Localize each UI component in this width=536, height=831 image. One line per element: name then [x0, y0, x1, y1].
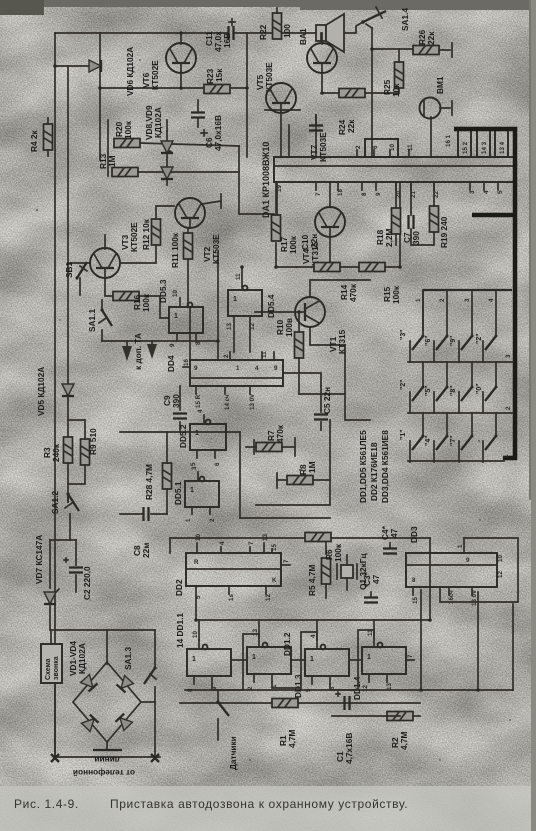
svg-text:Приставка автодозвона к охранн: Приставка автодозвона к охранному устрой… [110, 797, 408, 811]
svg-text:DA1 КР1008ВЖ10: DA1 КР1008ВЖ10 [261, 142, 271, 218]
wire bridge right link [141, 701, 155, 703]
svg-text:4: 4 [310, 634, 317, 638]
keypad column wire 4 [495, 290, 497, 336]
svg-text:DD1.4: DD1.4 [352, 676, 362, 700]
svg-text:4: 4 [219, 541, 226, 545]
transistor VT6 [166, 31, 196, 90]
svg-text:R22: R22 [258, 24, 268, 40]
rectifier bridge frame [73, 662, 141, 742]
wire DD3 drop left [420, 590, 422, 690]
svg-text:2,2М: 2,2М [384, 228, 394, 247]
gate DD1.4 [362, 638, 414, 682]
arrow to extra phone B [147, 341, 157, 359]
svg-text:звонка: звонка [53, 656, 60, 680]
resistor R6 [305, 533, 331, 542]
svg-text:"2": "2" [400, 379, 407, 390]
svg-text:2: 2 [223, 354, 230, 358]
svg-text:"1": "1" [400, 429, 407, 440]
svg-text:13 0V: 13 0V [471, 589, 478, 606]
svg-text:11: 11 [261, 351, 268, 358]
wire right rail 49 [372, 48, 412, 50]
capacitor C2 [64, 540, 83, 592]
wire top rail [55, 32, 227, 34]
resistor R3 [64, 437, 73, 463]
resistor R18 [392, 208, 401, 245]
label C11 value [204, 31, 232, 52]
keypad column box A [458, 130, 471, 157]
wire left main bus [54, 33, 56, 757]
wire bell top rail [51, 630, 155, 644]
svg-text:7: 7 [315, 192, 322, 196]
svg-text:1: 1 [195, 430, 199, 437]
label R24 [337, 119, 356, 135]
svg-text:Рис. 1.4-9.: Рис. 1.4-9. [14, 797, 79, 811]
svg-text:15 R: 15 R [195, 394, 202, 408]
op-amp dialer IC DA1 body [274, 157, 514, 182]
svg-text:1М: 1М [107, 155, 117, 167]
svg-text:14 DD1.1: 14 DD1.1 [175, 613, 185, 648]
svg-text:100к: 100к [123, 120, 133, 139]
svg-text:4,7М: 4,7М [287, 729, 297, 748]
label C10 [300, 234, 319, 250]
keypad column wire 3c [471, 413, 473, 436]
svg-text:12: 12 [249, 323, 256, 330]
svg-text:"5": "5" [425, 385, 432, 396]
label VT5 [255, 62, 274, 92]
svg-text:к доп. ТА: к доп. ТА [133, 333, 143, 370]
svg-text:DD2 К176ИЕ18: DD2 К176ИЕ18 [369, 442, 379, 501]
svg-text:9: 9 [466, 557, 470, 564]
svg-text:13 4: 13 4 [499, 141, 506, 154]
label R25 [382, 79, 401, 97]
keypad column wire 3 [471, 290, 473, 336]
wire VT4 emitter down [329, 237, 331, 267]
label R3 [42, 443, 61, 462]
label VD1-VD4 [68, 641, 87, 676]
push button SB1 [68, 262, 90, 295]
svg-text:1: 1 [457, 544, 464, 548]
svg-text:10: 10 [192, 631, 199, 638]
wire mid long vertical [217, 252, 219, 360]
capacitor C3 [364, 592, 378, 603]
svg-text:21: 21 [410, 191, 417, 198]
svg-text:47,0x16В: 47,0x16В [213, 115, 223, 151]
svg-text:100в: 100в [284, 318, 294, 337]
crystal Q1 [337, 555, 357, 590]
svg-text:КД102А: КД102А [153, 107, 163, 138]
DD1.1 pin numbers [187, 631, 218, 692]
label VT2 [202, 234, 221, 264]
svg-text:14 3: 14 3 [481, 141, 488, 154]
svg-text:VD7 КС147А: VD7 КС147А [34, 535, 44, 584]
wire mid bottom bus [195, 586, 197, 620]
svg-text:линии: линии [94, 755, 120, 765]
label R18 [375, 228, 394, 247]
label VT4 [301, 241, 320, 266]
resistor R11 [184, 229, 193, 305]
svg-text:R11 100к: R11 100к [170, 232, 180, 268]
svg-text:DD1.2: DD1.2 [282, 632, 292, 656]
svg-text:12: 12 [265, 594, 272, 601]
svg-text:DD5.1: DD5.1 [173, 481, 183, 505]
keypad row bus 3 [408, 460, 504, 462]
wire R14 R15 rail [297, 266, 400, 268]
DD3 pin numbers [412, 544, 504, 606]
wire R18 column [395, 182, 397, 208]
svg-text:R4 2к: R4 2к [29, 129, 39, 152]
svg-text:DD5.3: DD5.3 [158, 279, 168, 303]
resistor R25 [372, 49, 404, 93]
svg-text:DD1,DD5 К561ЛЕ5: DD1,DD5 К561ЛЕ5 [358, 430, 368, 503]
svg-text:3: 3 [505, 354, 512, 358]
svg-text:15: 15 [271, 544, 278, 551]
svg-text:6: 6 [372, 145, 379, 149]
wire R10 down [298, 358, 300, 394]
key "3" [410, 335, 425, 363]
wire C9 down [120, 422, 180, 432]
DA1 pin stubs top [289, 125, 409, 157]
svg-text:9: 9 [194, 365, 198, 372]
resistor R19 [430, 182, 439, 232]
wire R17 column [275, 182, 277, 213]
diode VD1 [81, 675, 98, 692]
wire gates bus [196, 619, 430, 621]
resistor R1 [272, 699, 298, 708]
wire mid right bus [256, 420, 330, 505]
svg-text:13: 13 [262, 534, 269, 541]
transistor VT1 [295, 297, 325, 327]
transistor VT5 [307, 33, 337, 73]
svg-text:11: 11 [235, 273, 242, 280]
label R14 [339, 283, 358, 302]
svg-text:VD6 КД102А: VD6 КД102А [125, 47, 135, 96]
diode VD4 [116, 714, 133, 731]
capacitor C6 [191, 100, 207, 136]
wire VT5-VT7 link [321, 74, 323, 93]
svg-text:DD5.2: DD5.2 [178, 424, 188, 448]
wire gates bus drop [429, 538, 431, 620]
DD4 pin numbers [183, 351, 278, 410]
transistor VT4 [315, 207, 345, 237]
transistor VT2 [175, 194, 221, 228]
capacitor C7 [409, 212, 414, 238]
resistor R28 [163, 432, 172, 514]
wire C10 column [315, 115, 317, 157]
svg-text:16: 16 [183, 359, 190, 366]
svg-text:"2": "2" [476, 333, 483, 344]
wire DD3 loop [440, 538, 518, 602]
line break mark left [51, 754, 59, 762]
svg-text:"3": "3" [400, 329, 407, 340]
zener VD7 [44, 540, 59, 630]
bell unit box [41, 644, 62, 683]
svg-text:4: 4 [197, 409, 204, 413]
line break mark right [151, 754, 159, 762]
svg-text:SA1.4: SA1.4 [400, 8, 410, 31]
svg-text:8: 8 [187, 688, 194, 692]
key "4" [434, 435, 449, 463]
svg-text:SA1.2: SA1.2 [50, 491, 60, 514]
label C9 [162, 394, 181, 408]
wire R24 row [322, 92, 372, 94]
counter IC DD3 [406, 538, 497, 595]
label VT1 [328, 329, 347, 354]
label VT3 [120, 222, 139, 252]
gate cross wires 1-2 [212, 634, 259, 690]
wire VD6 branch [55, 65, 100, 67]
wire R10 bottom rail [299, 393, 345, 395]
resistor R17 [272, 215, 281, 241]
svg-text:КТ503Е: КТ503Е [264, 62, 274, 92]
svg-text:240к: 240к [51, 443, 61, 462]
wire c9 bus right [180, 431, 240, 433]
label R7 [266, 424, 285, 443]
resistor R10 [295, 332, 304, 358]
wire gates lower rail [180, 702, 420, 704]
svg-text:5: 5 [190, 462, 197, 466]
svg-text:K: K [272, 577, 277, 584]
svg-text:1: 1 [236, 365, 240, 372]
gate cross wires 2-3 [272, 632, 317, 688]
svg-text:1: 1 [310, 656, 314, 663]
svg-text:КТ503Е: КТ503Е [211, 234, 221, 264]
DD5.4 pin numbers [226, 273, 256, 330]
label phone line [73, 755, 135, 778]
svg-text:100: 100 [282, 24, 292, 38]
key "0" [483, 386, 498, 414]
wire DD3 drop mid [477, 592, 479, 690]
wire keypad feed rows [345, 345, 370, 420]
svg-text:14 сч: 14 сч [224, 394, 231, 410]
svg-text:2: 2 [355, 145, 362, 149]
speaker BA1 [316, 14, 344, 52]
capacitor C10 [309, 115, 323, 131]
svg-text:10: 10 [172, 290, 179, 297]
svg-text:7: 7 [283, 559, 290, 563]
label R23 [205, 68, 224, 84]
wire bridge bottom tap [93, 742, 122, 750]
svg-text:R19 240: R19 240 [439, 216, 449, 248]
wire VT1 emitter [310, 327, 345, 345]
keypad thick stub mid [472, 213, 515, 218]
key "#" [483, 335, 498, 363]
scan edge band top [0, 0, 536, 7]
svg-text:SA1.3: SA1.3 [123, 647, 133, 670]
wire SA14 drop [371, 28, 373, 157]
resistor R22 [273, 8, 282, 39]
key "6" [434, 335, 449, 363]
wire second left bus [67, 66, 69, 502]
scan speckles [36, 59, 511, 761]
svg-text:22к: 22к [346, 119, 356, 133]
keypad row bus 2 [408, 412, 513, 414]
key "8" [459, 386, 474, 414]
svg-text:9: 9 [169, 343, 176, 347]
keypad column box C [495, 130, 508, 157]
svg-text:R5 4,7М: R5 4,7М [307, 565, 317, 596]
svg-text:1: 1 [233, 296, 237, 303]
keypad column wire 1b [422, 362, 424, 387]
wire C5 column [320, 386, 322, 412]
keypad thick border right [454, 129, 515, 458]
DA1 pin numbers top [355, 134, 452, 151]
svg-text:390: 390 [411, 231, 421, 245]
counter IC DD4 [183, 352, 283, 394]
label R1 [278, 729, 297, 748]
svg-text:5: 5 [305, 688, 312, 692]
svg-text:15 2: 15 2 [462, 141, 469, 154]
diode VD8 [161, 131, 173, 185]
capacitor C8 [120, 507, 167, 521]
wire R13 rail [138, 171, 239, 173]
gate feed from bus [199, 620, 374, 640]
svg-text:1: 1 [252, 654, 256, 661]
svg-text:18: 18 [337, 189, 344, 196]
svg-text:R9 510: R9 510 [88, 428, 98, 455]
svg-text:1: 1 [190, 487, 194, 494]
svg-text:C5 22н: C5 22н [322, 387, 332, 414]
label R8 [298, 461, 317, 475]
resistor R14 [314, 263, 340, 272]
wire DA1 pin column [246, 33, 248, 157]
label R20 [114, 120, 133, 139]
diode VD9 [161, 167, 173, 179]
diode VD2 [117, 676, 134, 693]
svg-text:10: 10 [497, 555, 504, 562]
svg-text:20: 20 [395, 191, 402, 198]
svg-text:4: 4 [483, 190, 490, 194]
key "*" [483, 435, 498, 463]
svg-text:1: 1 [415, 298, 422, 302]
wire VT6 column [99, 33, 101, 160]
wire DD2 left drop [169, 538, 171, 553]
diode VD5 [62, 384, 74, 396]
svg-text:12: 12 [362, 685, 369, 692]
keypad column wire 3b [471, 362, 473, 387]
resistor R23 [204, 85, 230, 94]
wire R13 R20 left column [107, 120, 109, 176]
svg-text:"7": "7" [450, 435, 457, 446]
svg-text:100к: 100к [333, 543, 343, 562]
wire right drop long [512, 604, 514, 690]
svg-text:390: 390 [171, 394, 181, 408]
svg-text:1: 1 [192, 656, 196, 663]
key "9" [459, 335, 474, 363]
svg-text:9: 9 [375, 192, 382, 196]
svg-text:470к: 470к [348, 283, 358, 302]
label C7 [402, 231, 421, 245]
svg-text:9: 9 [274, 365, 278, 372]
resistor R13 [112, 168, 138, 177]
arrow to extra phone A [122, 341, 132, 361]
svg-text:10: 10 [389, 144, 396, 151]
svg-text:100к: 100к [141, 293, 151, 312]
label R2 [390, 731, 409, 750]
svg-text:DD3: DD3 [409, 526, 419, 543]
wire R10 column [298, 312, 300, 332]
gate DD5.2 [190, 415, 226, 458]
keypad row numbers [503, 354, 512, 458]
keypad row bus 1 [408, 361, 513, 363]
svg-text:КТ502Е: КТ502Е [150, 60, 160, 90]
label R16 [132, 293, 151, 312]
transistor VT3 [90, 235, 120, 278]
svg-text:100к: 100к [391, 285, 401, 304]
svg-text:10к: 10к [391, 83, 401, 97]
DD5.3 pin numbers [169, 290, 202, 347]
key "5" [434, 386, 449, 414]
wire C9 column [179, 386, 181, 410]
label R6 [324, 543, 343, 562]
DD1.4 pin numbers [362, 629, 414, 692]
svg-text:5: 5 [195, 595, 202, 599]
svg-text:4,7x16В: 4,7x16В [344, 733, 354, 764]
wire VT1 collector [310, 280, 370, 297]
label R15 [382, 285, 401, 304]
svg-text:8: 8 [361, 192, 368, 196]
label R26 [417, 29, 436, 45]
svg-text:4: 4 [488, 298, 495, 302]
wire DA1 pin19 down [276, 193, 278, 214]
svg-text:C2 220,0: C2 220,0 [82, 566, 92, 600]
node wire left [50, 539, 76, 541]
wire C7 R19 bottom rail [411, 232, 434, 245]
svg-text:8: 8 [195, 341, 202, 345]
gate DD1.2 [247, 638, 291, 682]
svg-text:22м: 22м [141, 543, 151, 558]
svg-text:от телефонной: от телефонной [73, 768, 135, 778]
transistor VT7 [266, 83, 296, 157]
scan edge band right [529, 0, 536, 500]
wire mid drop [239, 146, 274, 214]
svg-text:47: 47 [371, 574, 381, 584]
svg-text:1М: 1М [307, 461, 317, 473]
key labels row2 [400, 379, 483, 396]
label R17 [279, 235, 298, 254]
keypad column numbers [415, 298, 495, 302]
svg-text:DD4: DD4 [166, 355, 176, 372]
wire lower rail2 [332, 715, 400, 717]
wire C7 top [410, 182, 412, 212]
wire mid right bus2 [240, 517, 330, 519]
wire VT7 row [265, 109, 300, 111]
svg-text:DD5.4: DD5.4 [266, 294, 276, 318]
capacitor C5 [314, 415, 328, 431]
svg-text:Датчики: Датчики [228, 736, 238, 770]
svg-text:КТ502Е: КТ502Е [129, 222, 139, 252]
svg-text:6: 6 [214, 462, 221, 466]
svg-text:19: 19 [276, 185, 283, 192]
wire VT6 lower rail [100, 87, 247, 89]
resistor R16 [105, 278, 169, 318]
DA1 pin numbers bottom [276, 185, 504, 198]
label R13 [98, 153, 117, 169]
IC type list [358, 430, 390, 503]
resistor R26 [413, 43, 452, 57]
resistor R2 [387, 712, 420, 721]
resistor R7 [246, 438, 295, 456]
gate cross wires 3-4 [330, 630, 374, 690]
resistor R4 [44, 118, 53, 156]
wire VD8 column [166, 120, 168, 131]
DD2 pin numbers [194, 534, 290, 601]
svg-text:"4": "4" [425, 435, 432, 446]
diode VD3 [82, 715, 99, 732]
keypad column wire 1 [422, 290, 424, 336]
capacitor C1 [336, 692, 350, 710]
keypad column wire 2b [446, 362, 448, 387]
label VT6 [141, 60, 160, 90]
